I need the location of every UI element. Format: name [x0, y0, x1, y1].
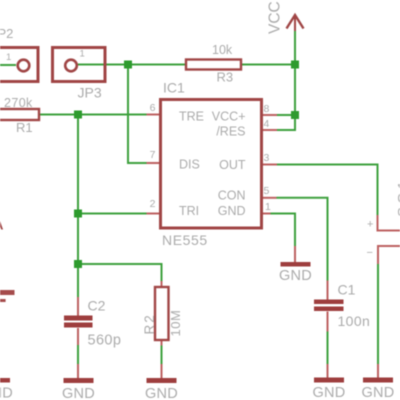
svg-text:5: 5	[264, 185, 270, 197]
svg-text:JP2: JP2	[0, 26, 13, 41]
svg-text:SG1: SG1	[395, 178, 400, 217]
svg-text:−: −	[367, 247, 373, 259]
svg-text:C1: C1	[338, 282, 356, 298]
svg-text:270k: 270k	[4, 96, 33, 110]
svg-text:GND: GND	[145, 386, 178, 400]
svg-text:NE555: NE555	[162, 232, 208, 248]
svg-text:560p: 560p	[88, 333, 122, 349]
svg-text:/RES: /RES	[216, 125, 245, 139]
svg-text:VCC: VCC	[267, 1, 284, 34]
svg-text:8: 8	[264, 103, 270, 115]
svg-text:1: 1	[80, 49, 85, 60]
svg-text:TRE: TRE	[179, 110, 204, 124]
svg-text:GND: GND	[62, 386, 95, 400]
svg-text:R1: R1	[16, 120, 33, 135]
svg-text:7: 7	[150, 149, 156, 161]
svg-text:OUT: OUT	[219, 158, 246, 172]
svg-text:10M: 10M	[168, 310, 183, 337]
svg-text:4: 4	[264, 118, 270, 130]
svg-text:JP3: JP3	[78, 85, 102, 101]
svg-text:IC1: IC1	[163, 80, 185, 96]
svg-text:R2: R2	[142, 313, 157, 334]
svg-text:GND: GND	[0, 386, 13, 400]
svg-text:C2: C2	[88, 298, 106, 314]
svg-text:DIS: DIS	[179, 158, 200, 172]
svg-text:1: 1	[6, 52, 11, 63]
svg-text:GND: GND	[279, 268, 312, 284]
svg-text:100n: 100n	[338, 313, 371, 329]
svg-text:6: 6	[150, 102, 156, 114]
svg-text:CON: CON	[218, 189, 246, 203]
svg-text:+: +	[367, 219, 373, 231]
svg-text:2: 2	[150, 198, 156, 210]
svg-text:GND: GND	[218, 204, 246, 218]
svg-text:R3: R3	[217, 70, 234, 85]
svg-text:1: 1	[265, 201, 271, 213]
svg-text:VCC+: VCC+	[212, 110, 246, 124]
svg-text:10k: 10k	[212, 43, 233, 57]
svg-text:GND: GND	[312, 385, 345, 400]
svg-text:TRI: TRI	[179, 204, 199, 218]
svg-text:3: 3	[264, 152, 270, 164]
svg-text:GND: GND	[361, 385, 394, 400]
